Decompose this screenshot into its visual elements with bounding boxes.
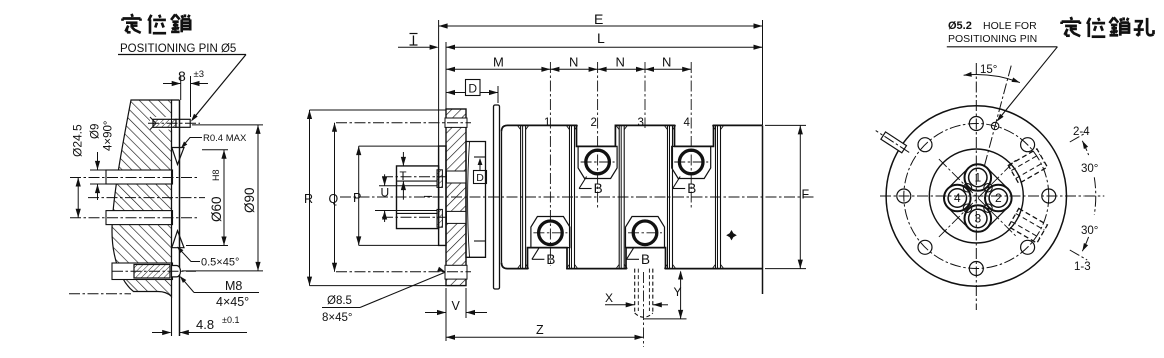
svg-text:B: B xyxy=(546,252,555,267)
hole centerline A xyxy=(70,177,197,179)
svg-text:8: 8 xyxy=(178,68,186,84)
port 2 top xyxy=(578,146,617,178)
flange passage band lower xyxy=(447,211,467,223)
svg-text:Ø5.2: Ø5.2 xyxy=(948,20,972,32)
spigot pilot xyxy=(439,146,446,245)
bolt holes 8x Ø8.5 xyxy=(1042,189,1056,203)
port 1 bottom xyxy=(531,217,570,248)
dim D boxed xyxy=(466,80,481,96)
svg-text:HOLE FOR: HOLE FOR xyxy=(983,20,1037,32)
end view vertical centerline xyxy=(975,63,977,310)
center port 2 xyxy=(985,185,1012,212)
pin hole band white cut xyxy=(150,117,173,130)
bolt circle dash-dot xyxy=(904,124,1049,269)
bolt circle centerline bottom xyxy=(336,271,471,273)
B labels with leaders xyxy=(579,177,587,189)
small circles at diamond side midpoints xyxy=(963,184,971,192)
diagonal centerlines 45deg xyxy=(939,159,1017,237)
end view outer circle xyxy=(886,106,1066,286)
dim Q xyxy=(334,123,336,272)
svg-text:30°: 30° xyxy=(1081,163,1098,175)
pin hole chamfer marks xyxy=(150,117,156,123)
hole band Ø9 top xyxy=(106,170,173,184)
svg-text:B: B xyxy=(594,181,603,196)
svg-text:30°: 30° xyxy=(1081,225,1098,237)
svg-text:M: M xyxy=(493,55,504,70)
snout center bore lines xyxy=(397,185,437,187)
svg-text:Q: Q xyxy=(329,192,339,206)
svg-text:2: 2 xyxy=(995,191,1002,205)
svg-text:3: 3 xyxy=(638,117,644,129)
hole band Ø9 bottom xyxy=(106,211,173,225)
port number centerlines xyxy=(549,62,551,266)
flange top pin hole xyxy=(445,118,467,127)
center port 1 xyxy=(965,164,992,191)
svg-text:Ø9: Ø9 xyxy=(90,124,102,139)
svg-text:15°: 15° xyxy=(980,64,997,76)
dim L xyxy=(445,42,447,109)
15 deg arc with arrows xyxy=(964,75,1020,83)
dim T xyxy=(402,152,404,166)
svg-text:Ø24.5: Ø24.5 xyxy=(71,124,85,157)
dim V xyxy=(445,288,447,341)
axis centerline left view xyxy=(88,197,205,199)
svg-text:POSITIONING PIN: POSITIONING PIN xyxy=(948,33,1037,45)
svg-text:X: X xyxy=(605,291,613,305)
pin stub upper-left xyxy=(881,132,907,153)
hole centerline B xyxy=(70,217,197,219)
stator left end disc xyxy=(494,105,500,289)
svg-text:Ø60: Ø60 xyxy=(209,196,224,222)
leader to pin xyxy=(193,55,247,120)
svg-text:4: 4 xyxy=(954,191,961,205)
body right face xyxy=(762,125,764,294)
left view mounting plate hatched section xyxy=(112,100,172,297)
relief notch bottom of bore xyxy=(172,231,184,248)
flange passage band upper xyxy=(447,171,467,183)
svg-text:B: B xyxy=(641,252,650,267)
svg-text:1: 1 xyxy=(544,117,550,129)
body barrel top silhouette xyxy=(502,125,763,146)
svg-text:P: P xyxy=(353,191,361,205)
surface mark diamond xyxy=(726,230,737,240)
dashed outlet rect upper 2-4 xyxy=(1008,149,1047,184)
svg-text:4.8: 4.8 xyxy=(196,317,214,332)
svg-text:±3: ±3 xyxy=(194,69,205,80)
svg-text:8×45°: 8×45° xyxy=(322,312,353,324)
svg-text:D: D xyxy=(468,82,477,96)
svg-text:U: U xyxy=(381,186,390,200)
leader to pin hole xyxy=(998,47,1058,121)
svg-text:N: N xyxy=(569,55,578,70)
dashed outlet rect lower 1-3 xyxy=(1008,208,1047,243)
svg-text:F: F xyxy=(802,188,810,202)
svg-text:N: N xyxy=(662,55,671,70)
svg-text:E: E xyxy=(594,11,603,27)
dim P xyxy=(359,145,439,147)
plate bottom edge dash-dot extension xyxy=(69,293,131,295)
svg-text:B: B xyxy=(687,181,696,196)
rotor shaft snout xyxy=(397,166,439,229)
flange bottom bolt hole xyxy=(445,265,467,279)
body left face xyxy=(501,131,503,262)
svg-text:V: V xyxy=(452,299,461,313)
relief notch top of bore xyxy=(172,148,184,165)
svg-text:R: R xyxy=(304,192,313,206)
svg-text:T: T xyxy=(400,171,407,183)
svg-text:H8: H8 xyxy=(211,169,221,181)
svg-text:0.5×45°: 0.5×45° xyxy=(201,257,239,269)
plate top edge closure xyxy=(172,99,180,101)
inner boss circle xyxy=(929,149,1023,243)
bolt circle centerline top xyxy=(336,122,471,124)
center port 3 xyxy=(965,205,992,232)
svg-text:2: 2 xyxy=(591,117,597,129)
middle view main axis xyxy=(340,196,816,198)
dim R xyxy=(310,109,447,111)
passage mouth hatched lower xyxy=(437,209,442,227)
snout passage bore lines xyxy=(397,180,437,182)
svg-text:1: 1 xyxy=(974,171,981,185)
15 deg slant centerline xyxy=(984,66,1011,167)
body ring grooves xyxy=(520,125,522,268)
angle arc 30 30 with ticks xyxy=(1082,141,1088,155)
rotor flange hatched xyxy=(446,109,466,286)
svg-text:R0.4 MAX: R0.4 MAX xyxy=(203,133,247,144)
M8 set screw xyxy=(134,265,170,279)
svg-text:POSITIONING PIN Ø5: POSITIONING PIN Ø5 xyxy=(120,43,236,55)
positioning pin in hole xyxy=(153,119,176,127)
dim M xyxy=(446,68,550,70)
plate right face inner line xyxy=(171,100,173,336)
passage centerline lower xyxy=(382,216,463,218)
svg-text:L: L xyxy=(597,30,605,46)
dim E xyxy=(438,20,440,146)
svg-text:M8: M8 xyxy=(225,279,242,293)
passage centerline upper xyxy=(382,176,463,178)
svg-text:±0.1: ±0.1 xyxy=(222,315,239,325)
center port 4 xyxy=(944,185,971,212)
datum D symbol xyxy=(474,171,487,184)
flange hub xyxy=(466,142,486,258)
svg-text:Ø8.5: Ø8.5 xyxy=(327,295,352,307)
dim U xyxy=(379,185,397,187)
plate right face outer line xyxy=(179,100,181,336)
title chinese 定位銷 xyxy=(132,14,133,17)
port 3 bottom xyxy=(626,217,665,248)
passage mouth hatched upper xyxy=(437,170,442,188)
snout axis stub xyxy=(424,195,432,197)
svg-text:Ø90: Ø90 xyxy=(242,187,257,213)
svg-text:1-3: 1-3 xyxy=(1074,261,1091,273)
svg-text:N: N xyxy=(616,55,625,70)
positioning pin hole Ø5.2 xyxy=(991,122,998,129)
svg-text:3: 3 xyxy=(974,212,981,226)
svg-text:D: D xyxy=(476,172,484,184)
bottom drain hole hidden xyxy=(634,269,636,313)
svg-text:2-4: 2-4 xyxy=(1073,126,1090,138)
svg-text:4: 4 xyxy=(684,117,691,129)
body barrel bottom silhouette xyxy=(502,248,763,269)
port 4 top xyxy=(672,146,711,178)
svg-text:4×90°: 4×90° xyxy=(103,120,115,151)
svg-text:4×45°: 4×45° xyxy=(216,295,249,309)
dims N N N xyxy=(550,68,691,70)
title chinese 定位銷孔 xyxy=(1071,17,1072,20)
end view horizontal centerline xyxy=(880,195,1084,197)
diamond boss tangent lines xyxy=(987,168,1008,189)
svg-text:Z: Z xyxy=(536,323,544,337)
M8 hole band white cut xyxy=(112,263,173,280)
dim F xyxy=(765,124,806,126)
